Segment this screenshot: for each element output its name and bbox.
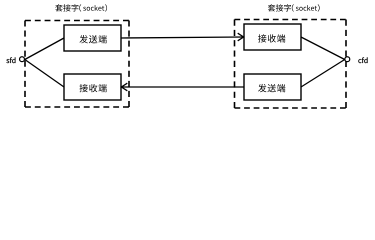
left socket dashed box [25,21,129,108]
label cfd [358,57,367,63]
label sfd [6,57,15,63]
node: cfd circle [345,57,350,62]
wire: cfd to right receiver [301,37,345,60]
box: right 接收端 (receiver) [244,24,301,50]
node: sfd circle [20,57,25,62]
right socket dashed box [235,20,347,109]
label: right 套接字（socket） [268,4,320,12]
box: left 接收端 (receiver) [64,74,121,100]
wire: sfd to left receiver [25,60,64,88]
wire: cfd to right sender [301,60,345,88]
wire: sfd to left sender [25,38,64,60]
arrow: left sender to right receiver [121,33,244,41]
label: left 套接字（socket） [55,4,107,12]
box: left 发送端 (sender) [64,25,121,51]
arrow: right sender to left receiver [121,83,244,91]
box: right 发送端 (sender) [244,74,301,100]
